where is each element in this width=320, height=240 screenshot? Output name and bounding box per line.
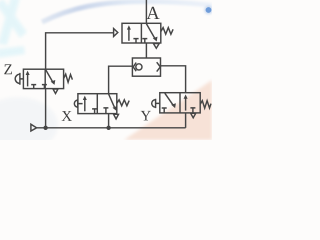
valve Z (3/2 pushbutton, left) bbox=[15, 69, 72, 93]
node label A bbox=[146, 7, 159, 19]
wire: Z output to A pilot bbox=[46, 33, 114, 69]
valve X (3/2 pushbutton, bottom middle) bbox=[74, 94, 129, 119]
left box exhaust diagonal bbox=[165, 93, 173, 105]
spring right bbox=[200, 101, 211, 108]
watermark: blue swoosh top bbox=[42, 1, 212, 22]
node label Z bbox=[4, 64, 12, 74]
pilot triangle left bbox=[114, 29, 118, 37]
exhaust triangle bbox=[114, 114, 119, 119]
watermark: cyan X top-left bbox=[0, 0, 27, 58]
wire: shuttle right input to Y output bbox=[161, 66, 186, 93]
right box flow arrow bbox=[185, 97, 187, 111]
wire: Z supply riser bbox=[45, 89, 47, 128]
right box exhaust diagonal bbox=[146, 24, 154, 38]
junction Z/bus bbox=[43, 126, 47, 130]
left box blocked port T bbox=[92, 109, 97, 114]
right seat bbox=[157, 62, 161, 71]
right box exhaust diagonal bbox=[46, 70, 53, 82]
left box flow arrow bbox=[84, 98, 86, 112]
left box flow arrow bbox=[128, 27, 130, 40]
wire: A output line up bbox=[145, 0, 147, 23]
right box blocked port T bbox=[103, 108, 108, 114]
watermark: pink triangle bottom-right bbox=[124, 80, 212, 140]
valve Y (3/2 pushbutton NO, bottom right) bbox=[152, 93, 211, 118]
wire: shuttle left input to X output bbox=[109, 66, 133, 94]
pushbutton left bbox=[15, 73, 23, 85]
left box blocked port T bbox=[31, 85, 36, 89]
exhaust triangle bbox=[153, 44, 159, 49]
shuttle valve bbox=[132, 58, 160, 76]
left seat bbox=[133, 63, 136, 72]
left box blocked port T bbox=[133, 39, 138, 43]
right box blocked port T bbox=[142, 39, 147, 43]
spring right bbox=[117, 100, 129, 106]
wire: X supply riser bbox=[108, 114, 110, 128]
pushbutton left bbox=[74, 99, 82, 108]
left box flow arrow bbox=[27, 73, 29, 86]
node label Y bbox=[141, 111, 151, 120]
spring right bbox=[64, 74, 73, 82]
junction X/bus bbox=[106, 126, 110, 130]
pushbutton left bbox=[152, 99, 160, 108]
spring right bbox=[161, 28, 173, 35]
source triangle bottom left bbox=[31, 124, 37, 131]
exhaust triangle under right box bbox=[191, 113, 196, 118]
watermark: faint grey tint bottom-left bbox=[0, 97, 58, 153]
right box exhaust diagonal bbox=[109, 94, 115, 107]
exhaust triangle bbox=[53, 89, 58, 94]
background base bbox=[0, 0, 212, 140]
valve A (3/2 pilot valve, top right) bbox=[114, 23, 174, 48]
left box blocked port T bbox=[162, 108, 167, 113]
watermark: blue dot top-right bbox=[204, 6, 213, 15]
node label X bbox=[62, 111, 72, 121]
wire: Y supply riser bbox=[185, 113, 187, 128]
wire: shuttle output to A supply bbox=[145, 43, 147, 58]
ball bbox=[136, 64, 142, 70]
right box blocked port T bbox=[42, 85, 47, 89]
wire: bottom supply bus bbox=[37, 127, 186, 129]
right box blocked port T bbox=[190, 108, 195, 113]
